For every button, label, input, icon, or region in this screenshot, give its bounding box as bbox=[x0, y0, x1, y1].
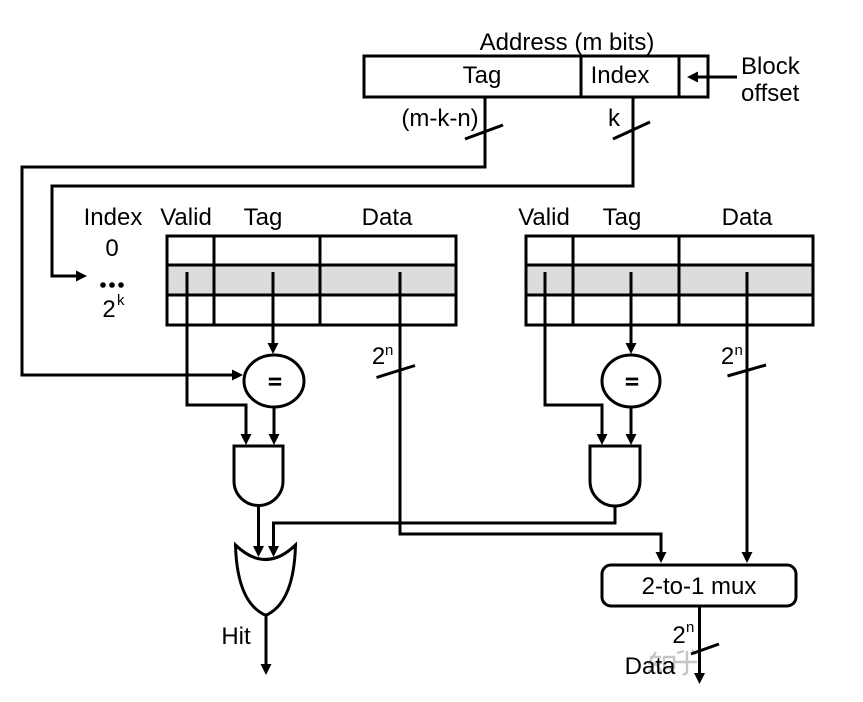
svg-text:Tag: Tag bbox=[463, 62, 502, 89]
svg-text:2: 2 bbox=[102, 296, 115, 323]
svg-text:0: 0 bbox=[105, 235, 118, 262]
svg-text:Block: Block bbox=[741, 53, 801, 80]
svg-text:Tag: Tag bbox=[603, 204, 642, 231]
svg-text:k: k bbox=[117, 292, 125, 309]
svg-text:2-to-1 mux: 2-to-1 mux bbox=[642, 573, 757, 600]
svg-text:offset: offset bbox=[741, 80, 800, 107]
svg-text:2: 2 bbox=[372, 343, 385, 370]
svg-text:(m-k-n): (m-k-n) bbox=[401, 105, 478, 132]
svg-text:Data: Data bbox=[625, 653, 676, 680]
svg-text:Index: Index bbox=[84, 204, 143, 231]
svg-text:n: n bbox=[385, 342, 393, 359]
svg-text:Index: Index bbox=[591, 62, 650, 89]
svg-text:Tag: Tag bbox=[244, 204, 283, 231]
svg-text:Valid: Valid bbox=[518, 204, 570, 231]
svg-text:Data: Data bbox=[362, 204, 413, 231]
svg-text:2: 2 bbox=[721, 343, 734, 370]
svg-text:n: n bbox=[686, 619, 694, 636]
svg-text:n: n bbox=[735, 342, 743, 359]
svg-text:k: k bbox=[608, 105, 621, 132]
svg-text:Valid: Valid bbox=[160, 204, 212, 231]
svg-text:Data: Data bbox=[722, 204, 773, 231]
svg-text:Hit: Hit bbox=[221, 623, 251, 650]
svg-text:Address (m bits): Address (m bits) bbox=[480, 29, 655, 56]
svg-text:2: 2 bbox=[672, 622, 685, 649]
